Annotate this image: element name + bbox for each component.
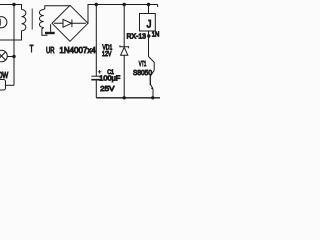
diode cathode bar	[71, 19, 73, 27]
transformer T secondary winding	[39, 10, 43, 28]
svg-text:RX-13: RX-13	[127, 31, 147, 40]
svg-text:UR: UR	[46, 45, 55, 55]
transformer core	[31, 9, 33, 30]
diode lead inside bridge	[54, 22, 86, 24]
heater box DW (clipped at left edge)	[0, 80, 6, 91]
node top-left junction	[12, 3, 15, 6]
transformer T primary winding	[22, 10, 26, 31]
zener VD1 cathode bar	[120, 45, 129, 48]
plug X1 (clipped at left edge)	[0, 17, 7, 28]
svg-text:1N4007x4: 1N4007x4	[59, 45, 96, 55]
wire top-left mains	[0, 5, 22, 10]
diode triangle	[63, 19, 71, 27]
capacitor C1 branch wire	[95, 5, 97, 77]
transistor VT1 base bar	[149, 76, 151, 85]
svg-text:0W: 0W	[0, 70, 8, 80]
wire mains return	[0, 31, 22, 40]
node zener ground	[123, 96, 126, 99]
wire relay to collector	[148, 31, 150, 57]
wire emitter to ground rail	[152, 89, 154, 98]
wire secondary bottom	[42, 28, 48, 36]
transistor VT1 emitter stroke with arrow	[150, 84, 153, 89]
node flyback diode junction	[147, 34, 150, 37]
wire left vertical branch	[13, 5, 15, 86]
lamp EL (clipped at left edge)	[0, 50, 7, 62]
svg-text:1N: 1N	[152, 30, 160, 39]
wire C1 to ground rail	[95, 80, 97, 98]
svg-text:12V: 12V	[102, 51, 112, 58]
stub cropped diode at right	[157, 5, 159, 8]
relay coil J box	[140, 14, 156, 32]
capacitor C1 plus sign	[98, 70, 102, 74]
wire lamp stub	[7, 56, 14, 58]
wire bottom rail	[96, 97, 160, 99]
node zener branch	[123, 3, 126, 6]
wire heater stub	[6, 84, 15, 86]
relay coil J wire from rail	[148, 5, 150, 14]
svg-text:25V: 25V	[100, 84, 115, 93]
wire zener to ground rail	[123, 55, 125, 98]
wire bridge output up	[88, 5, 158, 24]
capacitor C1 plates	[91, 75, 101, 77]
terminal bar	[45, 32, 55, 34]
svg-text:S8050: S8050	[133, 68, 152, 77]
zener VD1 triangle	[121, 47, 128, 55]
wire bar to bridge left corner	[50, 24, 52, 32]
transistor VT1 collector stroke	[150, 70, 154, 76]
svg-text:J: J	[147, 19, 152, 31]
wire secondary top	[44, 6, 70, 10]
node lamp junction	[12, 55, 15, 58]
node C1 branch	[95, 3, 98, 6]
wire collector jog	[149, 57, 155, 71]
svg-text:T: T	[30, 44, 34, 55]
svg-text:100μF: 100μF	[99, 74, 121, 83]
zener VD1 branch wire	[123, 5, 125, 47]
node relay branch	[147, 3, 150, 6]
bridge rectifier UR diamond	[52, 5, 88, 41]
node emitter ground	[151, 96, 154, 99]
